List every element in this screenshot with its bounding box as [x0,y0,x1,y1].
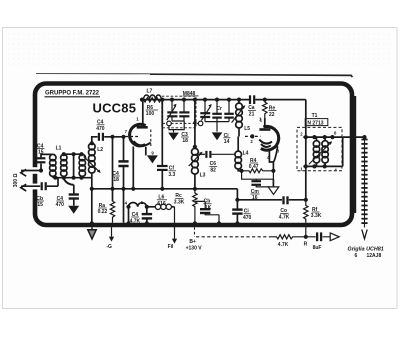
inductor L5 (tunable) [232,100,251,137]
triode U1a envelope [130,117,151,146]
wire input grid bus y177.7 [53,177,92,179]
triode U1b cathode [259,140,273,162]
svg-text:470: 470 [56,202,65,208]
wire anode tube1 drop [142,100,144,126]
capacitor C4 470 (cathode bypass) [56,185,79,208]
label 300 ohm (rotated) [13,174,19,188]
triode U1a anode [137,126,148,129]
resistor Rf 3.3K [304,200,322,223]
svg-text:Fil: Fil [168,244,174,250]
wire L2 bottom drop to filament bus and chassis [91,178,93,223]
resistor 4.7K (supply) [270,235,306,248]
label Griglia UCH81 [348,247,384,259]
wire grid drop x123.5 to Cd [123,137,125,223]
triode U1b envelope [259,116,280,153]
svg-text:21: 21 [249,112,255,118]
svg-text:-G: -G [106,244,112,250]
wire bottom supply dashed run [196,236,270,238]
shielded output bar (hatched) [361,137,367,239]
svg-text:L4: L4 [243,151,249,157]
resistor Rc 3.3K [174,189,197,223]
svg-text:+130 V: +130 V [186,246,203,252]
resistor R4 0.47 loop [242,158,274,179]
svg-text:6: 6 [355,253,358,259]
trimmer gang dashed shaft line [163,121,203,126]
svg-text:8uF: 8uF [313,245,322,251]
resistor Re 22 [260,100,277,123]
svg-text:100: 100 [146,111,155,117]
wire B+ dashed feed [186,227,203,251]
M848 tuning gang dashed box [162,91,199,128]
inductor L2 primary winding [79,147,103,178]
svg-text:UCC85: UCC85 [93,101,137,116]
svg-text:12AJ8: 12AJ8 [367,253,382,259]
inductor L3 (tunable) [189,148,206,188]
svg-text:3.3: 3.3 [168,172,175,178]
svg-text:L2: L2 [97,147,103,153]
svg-text:B+: B+ [189,239,196,245]
svg-text:4.7K: 4.7K [278,242,289,248]
wire L2 top to grid coupling [92,137,98,144]
wire tube1 filament lead to bus [132,147,134,189]
svg-text:4.7K: 4.7K [130,218,141,224]
wire antenna lower lead [21,178,58,187]
svg-text:N 2713: N 2713 [307,120,323,126]
svg-text:L7: L7 [147,88,153,94]
antenna terminal arrow lower [21,184,26,191]
triode U1b anode [259,118,270,130]
svg-text:470: 470 [96,126,105,132]
capacitor Co 4.7K (series) [279,196,290,220]
transformer T1 label [305,113,328,126]
capacitor Ca 21 [248,95,256,117]
capacitor Ci 470 [232,209,251,221]
svg-text:82: 82 [210,167,216,173]
svg-text:4.7K: 4.7K [279,214,290,220]
svg-text:0.47: 0.47 [249,164,259,170]
capacitor C4 470 (grid coupling) [96,120,125,141]
wire mixer-grid drop x162 [161,100,163,189]
wire filament bus y188.8 [92,188,238,190]
capacitor C4 15 [37,143,46,162]
svg-text:18: 18 [182,138,188,144]
svg-text:15: 15 [37,202,43,208]
inductor L1 primary winding [50,146,62,178]
variable capacitor gang-A plates [167,100,190,121]
svg-text:18: 18 [113,177,119,183]
scan rule line above border [36,74,353,77]
transformer T1 dashed box [297,127,342,170]
inductor L1 secondary winding [61,154,67,178]
wire oscillator column x195 [194,100,196,147]
svg-text:15: 15 [38,150,44,156]
output arrow right [330,233,339,241]
svg-text:22: 22 [269,112,275,118]
wire Rf continuation to R node [305,227,307,237]
ground (open) below tube2 cathode network [268,179,279,194]
svg-text:L1: L1 [56,146,62,152]
svg-text:14: 14 [224,139,230,145]
capacitor Cb 15 (series) [36,182,46,208]
wire AGC drop x112.5 (through Ra) [112,137,114,202]
ground below bypass C4 [68,206,79,214]
transformer T1 windings [300,131,343,173]
svg-text:1K: 1K [205,205,212,211]
terminal -G below chassis [106,227,114,250]
wire IF takeoff y199.8 [237,199,305,201]
antenna terminal arrow upper [21,169,26,176]
svg-text:0.22: 0.22 [98,209,108,215]
triode U1b grid (pin 2, dashed) [245,134,260,144]
ground below gang-A [168,121,189,144]
title GRUPPO F.M. 2722 [45,91,101,97]
svg-text:3.3K: 3.3K [311,213,322,219]
heater winding pins 4-1 [125,200,147,223]
capacitor Cm 16 [251,179,270,201]
wire input-tank tap curve to C4 470 bypass [64,178,74,185]
variable capacitor gang-B plates Cr [200,100,234,132]
svg-text:L3: L3 [200,172,206,178]
svg-text:300 Ω: 300 Ω [13,174,19,188]
ground tube1 cathode [147,155,158,163]
capacitor C6 82 [195,151,235,174]
wire antenna upper lead [21,154,52,170]
capacitor Cb 1K [195,199,219,223]
resistor R6 [144,98,162,118]
svg-text:3.3K: 3.3K [174,200,185,206]
capacitor 8uF [306,232,330,250]
scan texture rows [8,34,392,64]
inductor L6 616 [147,195,175,210]
terminal Fil below chassis [168,207,177,250]
ground below gang-B / capacitor Ci 14 [212,132,231,144]
wire tube2 plate-side drop to node [273,146,277,171]
triode U1a cathode [134,141,155,155]
inductor L7 [144,88,162,99]
wire top B+ rail [142,100,306,200]
capacitor Cd 18 [112,161,129,183]
inductor L2 secondary winding (tunable) [84,143,101,177]
svg-text:616: 616 [157,201,166,207]
wire T1 output to edge [343,136,365,138]
terminal arrow below chassis at L2 ground stub [88,227,96,239]
svg-text:Griglia UCH81: Griglia UCH81 [348,247,384,253]
tube label UCC85 [93,101,137,116]
wire mixer output drop x237.4 [236,189,238,223]
capacitor Cf 3.3 [157,166,176,178]
resistor Ra 0.22 [98,201,115,223]
schematic chassis border [31,84,356,226]
wire L1/L2 top link [64,154,83,178]
triode U1a grid (pin 7, dashed) [125,129,139,136]
svg-text:470: 470 [243,215,252,221]
svg-text:R: R [304,241,308,247]
inductor L4 [235,136,249,170]
svg-text:GRUPPO F.M. 2722: GRUPPO F.M. 2722 [45,91,100,97]
svg-text:L5: L5 [244,126,250,132]
node R [304,235,308,248]
capacitor C4 4.7K (heater bypass) [130,207,153,225]
